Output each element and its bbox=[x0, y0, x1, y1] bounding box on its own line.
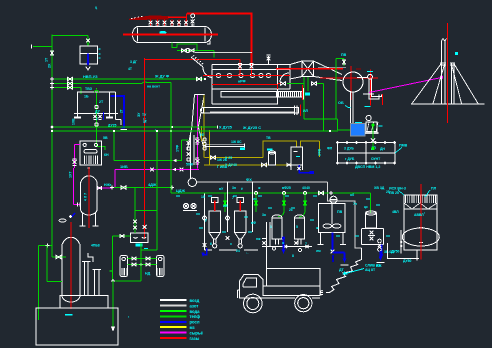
svg-text:Ж ДУ25 С: Ж ДУ25 С bbox=[242, 125, 261, 130]
svg-text:5ХЖ: 5ХЖ bbox=[186, 163, 194, 167]
svg-text:тепф: тепф bbox=[190, 314, 201, 319]
furnace inlet scroll bbox=[191, 57, 203, 67]
svg-text:5В: 5В bbox=[103, 136, 108, 140]
svg-text:росл: росл bbox=[190, 320, 200, 325]
legend line 1 (white) bbox=[160, 299, 187, 301]
red main vertical x144.7 bbox=[144, 58, 146, 239]
white line y184 to right bbox=[197, 181, 328, 183]
green link y210.5 bbox=[135, 210, 157, 212]
svg-text:2X: 2X bbox=[48, 63, 52, 68]
svg-text:ПЛ: ПЛ bbox=[431, 187, 437, 191]
svg-text:3о: 3о bbox=[262, 213, 266, 217]
svg-text:ПМВ: ПМВ bbox=[399, 144, 408, 148]
svg-text:Г ИВж: Г ИВж bbox=[217, 165, 228, 169]
mixer blue drain bbox=[332, 233, 334, 251]
platform internals right of V2 bbox=[84, 262, 86, 295]
svg-text:НД: НД bbox=[145, 272, 151, 276]
legend line 5 (blue) bbox=[160, 321, 187, 323]
valve feed day tank bbox=[87, 36, 89, 46]
equipment table bbox=[338, 143, 396, 164]
svg-text:4Х40: 4Х40 bbox=[302, 186, 310, 190]
svg-text:возд: возд bbox=[190, 298, 200, 303]
svg-text:1ХВ: 1ХВ bbox=[72, 118, 76, 125]
vessel V1 bbox=[81, 176, 98, 183]
magenta core line in cyclone bbox=[196, 95, 198, 169]
PSV relief valve on drum bbox=[191, 14, 195, 18]
magenta line to flare bbox=[369, 78, 442, 93]
vessel V2 dome bbox=[63, 237, 80, 244]
metering box bbox=[291, 147, 303, 165]
svg-text:1б: 1б bbox=[201, 195, 205, 199]
diffuser cones bbox=[290, 61, 302, 65]
legend line 2 (grey) bbox=[160, 305, 187, 307]
svg-text:4ДЖ: 4ДЖ bbox=[148, 182, 157, 187]
arrow below day tank bbox=[86, 67, 90, 71]
svg-text:нж: нж bbox=[256, 237, 261, 241]
tank roof comb bbox=[405, 195, 407, 203]
red instrument tree right of blower bbox=[370, 70, 372, 106]
svg-text:нРФ: нРФ bbox=[238, 80, 246, 84]
drum D1 horizontal vessel bbox=[133, 27, 212, 43]
furnace end arc bbox=[280, 73, 289, 82]
svg-text:1ТФ: 1ТФ bbox=[176, 145, 180, 152]
svg-text:2Т: 2Т bbox=[120, 109, 124, 113]
svg-text:7п: 7п bbox=[353, 202, 357, 206]
wire green stub top-left bbox=[33, 46, 52, 48]
white platform line y52.5 bbox=[195, 52, 252, 54]
legend line 4 (green) bbox=[160, 315, 187, 317]
drum top valve row bbox=[149, 20, 153, 27]
svg-text:▪: ▪ bbox=[155, 128, 156, 132]
svg-text:сырьё: сырьё bbox=[190, 330, 204, 335]
green bypass under valve bbox=[303, 77, 305, 119]
red into blower bbox=[320, 77, 378, 79]
white line above blower bbox=[318, 66, 346, 68]
truck cab bbox=[240, 275, 264, 299]
pump P1 bbox=[120, 256, 128, 277]
red loop over to furnace bbox=[187, 14, 252, 65]
red axis line flare bbox=[447, 23, 449, 123]
svg-text:4ВЛ: 4ВЛ bbox=[392, 210, 399, 214]
base foundation bbox=[36, 308, 118, 345]
svg-text:ФХ: ФХ bbox=[246, 178, 252, 182]
svg-text:4ПБ8: 4ПБ8 bbox=[91, 244, 100, 248]
thin tube off cyclone bbox=[205, 144, 244, 146]
svg-text:НВП-УЗ: НВП-УЗ bbox=[83, 74, 98, 79]
white line to tank bottom bbox=[388, 243, 418, 259]
svg-text:об: об bbox=[350, 193, 354, 197]
dosing skid P3 bbox=[80, 141, 102, 165]
drum support bracket bbox=[207, 41, 210, 45]
mixer M1 bbox=[319, 204, 346, 233]
svg-text:▪: ▪ bbox=[424, 211, 425, 215]
svg-text:1ХТ: 1ХТ bbox=[69, 171, 73, 178]
burner circles bbox=[216, 73, 220, 77]
cyclone column K1 bbox=[187, 95, 194, 151]
blue C pipe right of frame bbox=[111, 96, 125, 128]
filter pot on yellow line bbox=[268, 153, 275, 165]
svg-text:ХВ 3Д: ХВ 3Д bbox=[374, 186, 385, 190]
pump P2 bbox=[157, 256, 165, 277]
svg-text:цс: цс bbox=[364, 205, 368, 209]
green drop to dampener x370.5 bbox=[370, 193, 372, 213]
white frame right extension bbox=[110, 91, 116, 93]
storage tank TK1 bbox=[404, 195, 437, 250]
svg-text:3 ДГ: 3 ДГ bbox=[130, 60, 137, 64]
green pump pair circuit bbox=[140, 243, 142, 250]
blue drain left of tank bbox=[380, 251, 382, 258]
svg-text:ДТ: ДТ bbox=[339, 268, 345, 272]
svg-text:7: 7 bbox=[232, 196, 234, 200]
green drop into frame with hop bbox=[96, 88, 98, 90]
valve mid on y79 line bbox=[196, 77, 201, 81]
svg-text:1: 1 bbox=[270, 225, 272, 229]
svg-text:▪: ▪ bbox=[128, 315, 129, 319]
hopper H1 bbox=[209, 211, 221, 232]
svg-text:ДН: ДН bbox=[380, 147, 385, 151]
svg-text:2: 2 bbox=[96, 117, 98, 121]
flare base line bbox=[411, 103, 485, 105]
svg-text:азот: азот bbox=[190, 303, 199, 308]
hardware cluster left of cyclone bbox=[187, 141, 191, 145]
red centerline V1 bbox=[88, 167, 90, 228]
wire green horizontal y79 long bbox=[52, 78, 205, 80]
svg-text:25: 25 bbox=[386, 190, 390, 194]
red centerline through drum bbox=[123, 34, 218, 36]
blue box (VFD) bbox=[350, 124, 365, 137]
svg-text:5: 5 bbox=[296, 225, 298, 229]
yellow risers from cyclone bbox=[203, 95, 205, 158]
yellow riser loop bbox=[211, 156, 216, 159]
green drop through pump to table bbox=[372, 125, 374, 140]
svg-text:ЛВ 25: ЛВ 25 bbox=[389, 191, 399, 195]
svg-text:▪: ▪ bbox=[330, 248, 331, 252]
svg-text:3н: 3н bbox=[232, 186, 236, 190]
wire green horizontal y87.5 bbox=[52, 87, 81, 89]
svg-text:ё: ё bbox=[241, 187, 243, 191]
green line y160.5 from x114 bbox=[114, 160, 173, 162]
svg-text:2с: 2с bbox=[289, 208, 293, 212]
green left drop lines bbox=[39, 245, 52, 247]
svg-text:вФ25: вФ25 bbox=[282, 186, 291, 190]
green y119 link bbox=[304, 118, 338, 120]
svg-text:ЗФВ: ЗФВ bbox=[318, 148, 322, 156]
magenta into V1 left nozzle bbox=[73, 168, 75, 205]
svg-text:6: 6 bbox=[210, 242, 212, 246]
magenta into V1 right bbox=[97, 187, 112, 189]
svg-text:6Н: 6Н bbox=[104, 153, 109, 157]
red axis tank bbox=[420, 184, 422, 260]
tube exchanger T1 bbox=[221, 92, 302, 98]
svg-text:1Б: 1Б bbox=[84, 95, 89, 99]
pump beside blue box bbox=[366, 115, 371, 120]
blue drain V1 bbox=[72, 213, 76, 217]
svg-text:мз: мз bbox=[190, 325, 195, 330]
blue under metering box bbox=[299, 165, 310, 173]
white pipe pair down from cyclone bbox=[190, 135, 192, 178]
red drop x240 with valve bbox=[239, 60, 241, 76]
green down into base w arrow bbox=[112, 281, 114, 329]
green from valve x344 bbox=[335, 59, 337, 120]
hitch bbox=[320, 292, 323, 294]
svg-text:ж: ж bbox=[257, 186, 261, 190]
red centerline furnace y75.5 bbox=[203, 75, 290, 77]
svg-text:ДУ80: ДУ80 bbox=[403, 259, 411, 263]
wire green main H1 y127 bbox=[52, 126, 218, 128]
svg-text:ДУ50: ДУ50 bbox=[391, 250, 399, 254]
svg-text:АВВЛ: АВВЛ bbox=[414, 213, 424, 217]
svg-text:∟: ∟ bbox=[246, 251, 249, 255]
svg-text:Х ДУ25: Х ДУ25 bbox=[219, 126, 232, 130]
svg-text:1Ж 2Б: 1Ж 2Б bbox=[217, 158, 228, 162]
wire green main vertical left header bbox=[51, 35, 53, 258]
svg-text:ж: ж bbox=[315, 226, 319, 230]
svg-text:лс: лс bbox=[253, 197, 257, 201]
svg-text:7: 7 bbox=[305, 242, 307, 246]
svg-text:лм: лм bbox=[316, 249, 321, 253]
svg-text:1ИБ: 1ИБ bbox=[120, 164, 128, 169]
white thick pipe y112 top bbox=[210, 111, 294, 113]
svg-text:1Ж 8С: 1Ж 8С bbox=[231, 140, 242, 144]
svg-text:иВ: иВ bbox=[223, 204, 228, 208]
guy wires bbox=[412, 64, 441, 104]
red heavy line through valve bbox=[276, 68, 343, 70]
svg-text:на вент: на вент bbox=[147, 85, 160, 89]
blue drop with arrow center bbox=[283, 238, 285, 251]
frame stand S1 bbox=[77, 91, 110, 93]
hopper H2 bbox=[235, 211, 247, 232]
vessel R3 bbox=[272, 218, 282, 239]
magenta feed to skid bbox=[75, 144, 81, 146]
green drum bottom outlet piping bbox=[172, 43, 177, 48]
pump box PB1 bbox=[131, 233, 149, 243]
small pumps under cyclone bbox=[183, 203, 188, 208]
pedestal bbox=[60, 296, 108, 309]
wire green main H2 y131 bbox=[52, 130, 338, 132]
svg-text:3 ДУБ: 3 ДУБ bbox=[344, 147, 354, 151]
svg-text:24: 24 bbox=[236, 249, 240, 253]
header drops with valves bbox=[224, 193, 226, 212]
valves on drum outlet bbox=[182, 49, 187, 52]
green y187.5 line bbox=[112, 187, 172, 189]
dampener vessel bbox=[366, 213, 377, 228]
green valve feed pump box left bbox=[113, 235, 131, 237]
legend line 7 (magenta) bbox=[160, 332, 187, 334]
svg-text:ЦДЖ: ЦДЖ bbox=[176, 189, 185, 193]
front wheel bbox=[244, 294, 263, 313]
svg-text:ИСХ ВН-3: ИСХ ВН-3 bbox=[389, 187, 406, 191]
truck cargo box bbox=[267, 269, 321, 287]
red centerline V2 bbox=[70, 222, 72, 309]
blue elbow bottom center bbox=[203, 248, 207, 255]
cyan tag inside drum bbox=[159, 31, 166, 34]
white pipework around hoppers bbox=[227, 182, 229, 233]
vessel R4 bbox=[295, 218, 305, 239]
wire green horizontal y83.5 bbox=[52, 83, 142, 85]
hopper header y193 bbox=[171, 192, 371, 194]
red drop x251.5 with valve bbox=[251, 59, 253, 76]
svg-text:вода: вода bbox=[190, 309, 201, 314]
fittings on green drop x96.5 bbox=[95, 105, 98, 108]
svg-text:ИЛ: ИЛ bbox=[303, 109, 309, 113]
valve on y79 bbox=[68, 77, 73, 80]
blower discharge pipes down bbox=[350, 92, 352, 124]
green drop x135 into pump box bbox=[134, 188, 136, 234]
svg-text:ПВ: ПВ bbox=[341, 53, 347, 57]
svg-text:о: о bbox=[282, 241, 284, 245]
blower B1 bbox=[343, 72, 363, 92]
svg-text:газы: газы bbox=[190, 336, 200, 341]
svg-text:Ж ДУ Ф: Ж ДУ Ф bbox=[154, 74, 170, 79]
legend line 6 (yellow) bbox=[160, 326, 187, 328]
red X valve above box bbox=[143, 225, 147, 229]
magenta line y169.5 to V1 area bbox=[115, 169, 199, 171]
svg-text:ОУНТ: ОУНТ bbox=[371, 157, 381, 161]
svg-text:2Ф: 2Ф bbox=[200, 133, 205, 137]
svg-text:ТВ: ТВ bbox=[266, 136, 271, 140]
svg-text:у: у bbox=[205, 218, 207, 222]
red header to relief loop bbox=[168, 16, 187, 18]
svg-text:ПВ: ПВ bbox=[337, 210, 343, 214]
green vertical x171 to hopper header bbox=[170, 83, 172, 193]
furnace F1 body bbox=[212, 64, 290, 66]
pump circle below cyclone bbox=[188, 178, 196, 186]
green drop to skid eye bbox=[113, 131, 115, 161]
svg-text:х: х bbox=[230, 242, 232, 246]
svg-text:г ДУБ: г ДУБ bbox=[345, 157, 355, 161]
truck bed bbox=[263, 286, 320, 296]
svg-text:ОБ: ОБ bbox=[338, 101, 344, 105]
red fuel line y84.5 bbox=[212, 84, 278, 86]
svg-text:вФ: вФ bbox=[251, 221, 256, 225]
svg-text:НЖг: НЖг bbox=[104, 183, 112, 187]
green branch with valve into V2 bbox=[52, 256, 66, 258]
legend line 8 (red) bbox=[160, 337, 187, 339]
valve on left header bbox=[50, 51, 53, 55]
valve stack left of tank bbox=[378, 239, 382, 243]
green drop x181.5 with arrow bbox=[181, 140, 183, 161]
svg-text:ФЛ: ФЛ bbox=[327, 147, 333, 151]
svg-text:4 Л 7: 4 Л 7 bbox=[84, 193, 88, 201]
blue outlet dampener bbox=[381, 245, 383, 257]
legend line 3 (green) bbox=[160, 310, 187, 312]
blue level line in day tank bbox=[87, 54, 89, 65]
svg-text:ДВСП НВМ 1,2: ДВСП НВМ 1,2 bbox=[355, 165, 380, 169]
wire green top horizontal to day tank bbox=[52, 35, 88, 37]
truck chassis bbox=[240, 297, 245, 299]
day tank T1 bbox=[80, 46, 98, 64]
vent pipe x268.5 bbox=[268, 56, 270, 65]
guy attachment marks bbox=[440, 63, 446, 65]
green pump suction/discharge lines bbox=[128, 258, 157, 260]
hose squiggle to truck bbox=[330, 248, 362, 293]
cyan density marks near hoppers bbox=[208, 195, 212, 197]
flare stack mast bbox=[440, 41, 442, 104]
tube exchanger T2 bbox=[204, 108, 299, 114]
frame between vessels bbox=[266, 222, 268, 268]
red horizontal y59.5 bbox=[145, 59, 240, 61]
rear wheel bbox=[295, 295, 312, 312]
big damper valve bbox=[302, 61, 314, 77]
vessel V2 body bbox=[61, 244, 63, 295]
svg-text:ЗУ: ЗУ bbox=[137, 112, 141, 117]
svg-text:8: 8 bbox=[292, 254, 294, 258]
svg-text:ТВЗ: ТВЗ bbox=[85, 87, 93, 91]
cyan leader near hose bbox=[346, 269, 365, 274]
tank rim ellipse bbox=[402, 228, 439, 246]
blue tick above truck bbox=[332, 255, 334, 262]
svg-text:ДУ: ДУ bbox=[95, 110, 101, 114]
red flare header wedge bbox=[129, 16, 168, 19]
svg-text:АЦ 8Т: АЦ 8Т bbox=[365, 268, 376, 272]
svg-text:СЛИВ ИЗ: СЛИВ ИЗ bbox=[365, 264, 381, 268]
